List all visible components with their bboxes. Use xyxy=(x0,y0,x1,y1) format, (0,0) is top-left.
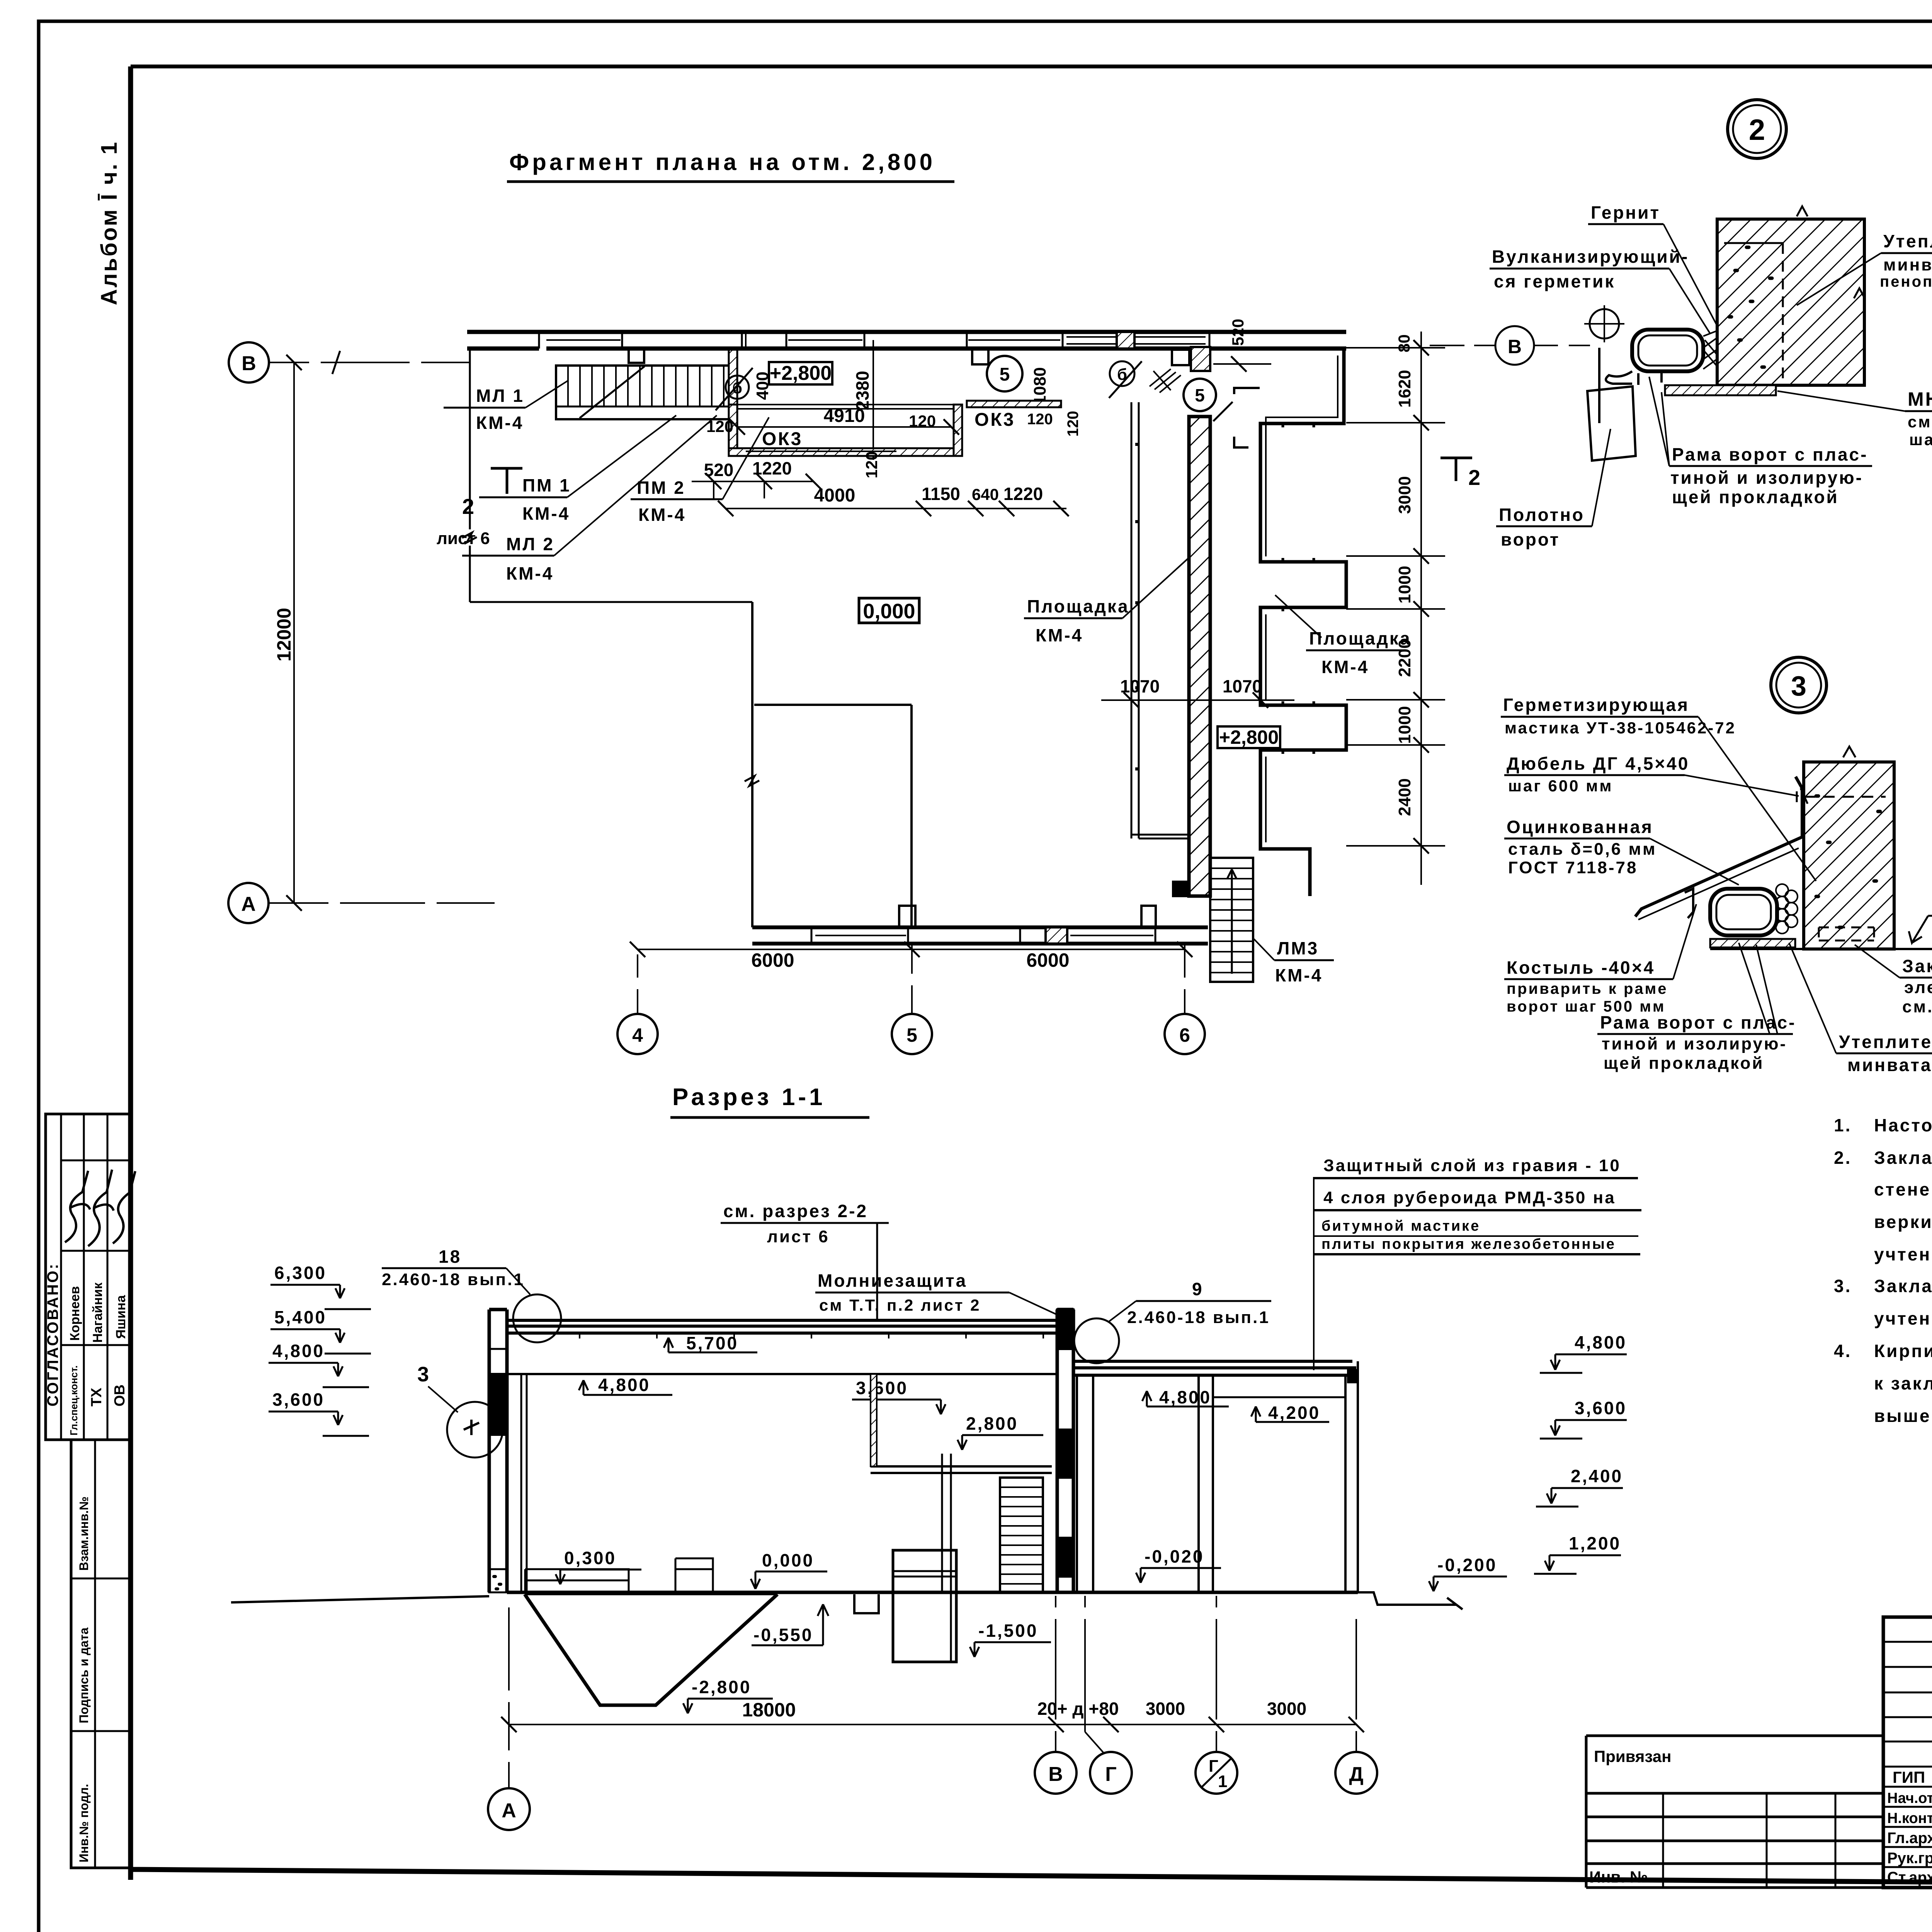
svg-text:0,000: 0,000 xyxy=(762,1550,814,1570)
break marks wall xyxy=(1797,206,1865,298)
B wall xyxy=(1057,1310,1073,1592)
svg-text:СОГЛАСОВАНО:: СОГЛАСОВАНО: xyxy=(44,1262,61,1406)
svg-text:18: 18 xyxy=(439,1247,461,1267)
interior room xyxy=(752,602,912,927)
svg-text:1150: 1150 xyxy=(922,484,960,504)
svg-text:2.: 2. xyxy=(1834,1148,1852,1168)
svg-text:Инв. №: Инв. № xyxy=(1589,1868,1648,1886)
svg-text:6: 6 xyxy=(1179,1024,1190,1046)
top strip line xyxy=(131,65,1932,68)
node b circle 2 xyxy=(1110,361,1134,386)
svg-text:-0,200: -0,200 xyxy=(1437,1555,1497,1575)
4,200 right mark xyxy=(1251,1406,1329,1422)
wall hatched xyxy=(1804,762,1894,949)
svg-text:элемент: элемент xyxy=(1904,978,1932,997)
svg-text:см. Т.Т. п. 2: см. Т.Т. п. 2 xyxy=(1908,413,1932,431)
svg-text:Фрагмент плана на отм. 2,800: Фрагмент плана на отм. 2,800 xyxy=(509,149,935,175)
internal stairs xyxy=(1000,1478,1043,1592)
svg-text:А: А xyxy=(241,893,256,915)
svg-text:приварить к раме: приварить к раме xyxy=(1507,980,1668,997)
svg-text:20+ д +80: 20+ д +80 xyxy=(1037,1699,1119,1719)
svg-text:4,200: 4,200 xyxy=(1268,1403,1320,1423)
right sawtooth outline xyxy=(1260,350,1346,896)
pivot circle xyxy=(1590,309,1619,338)
svg-text:Костыль -40×4: Костыль -40×4 xyxy=(1507,957,1655,978)
svg-text:Подпись и дата: Подпись и дата xyxy=(77,1628,91,1723)
top exterior wall xyxy=(467,332,1346,349)
svg-text:ПМ 2: ПМ 2 xyxy=(637,478,685,498)
level box 0,000 xyxy=(859,598,919,623)
left attach table xyxy=(1586,1736,1883,1888)
svg-text:Защитный слой из гравия - 10: Защитный слой из гравия - 10 xyxy=(1323,1156,1621,1175)
svg-text:2: 2 xyxy=(462,494,474,519)
window lines in wall xyxy=(546,337,1206,344)
dowel dashed xyxy=(1804,796,1886,798)
svg-text:12000: 12000 xyxy=(273,608,295,662)
svg-text:4000: 4000 xyxy=(814,485,855,506)
left thin wall xyxy=(1131,402,1189,838)
section mark 2 xyxy=(1440,458,1472,481)
svg-text:Дюбель ДГ 4,5×40: Дюбель ДГ 4,5×40 xyxy=(1507,753,1689,774)
svg-text:Яшина: Яшина xyxy=(114,1295,128,1339)
main dim line xyxy=(509,1724,1356,1725)
hatch mark xyxy=(1150,369,1181,393)
svg-text:Гл.арх.: Гл.арх. xyxy=(1887,1830,1932,1847)
svg-text:Разрез 1-1: Разрез 1-1 xyxy=(672,1084,826,1111)
svg-text:Закладные детали МН 108-3 для: Закладные детали МН 108-3 для крепления … xyxy=(1874,1148,1932,1168)
svg-text:щей прокладкой: щей прокладкой xyxy=(1672,487,1839,507)
roofing leader vertical xyxy=(1313,1178,1315,1370)
5,700 mark xyxy=(664,1338,757,1352)
svg-text:к закладным деталям колонн чер: к закладным деталям колонн через 1200 по… xyxy=(1874,1373,1932,1393)
svg-text:1220: 1220 xyxy=(752,458,792,478)
svg-text:18000: 18000 xyxy=(742,1699,796,1721)
svg-text:Настоящий лист смотреть совмес: Настоящий лист смотреть совместно с лист… xyxy=(1874,1115,1932,1135)
right columns xyxy=(1077,1361,1358,1592)
svg-text:Г: Г xyxy=(1209,1757,1218,1776)
svg-text:см. Т.Т. п.3: см. Т.Т. п.3 xyxy=(1902,997,1932,1016)
svg-text:ЛМ3: ЛМ3 xyxy=(1277,938,1319,958)
axis circle 5 bottom xyxy=(892,1014,932,1054)
level box +2,800 xyxy=(769,362,832,384)
left roof slab xyxy=(507,1320,1066,1333)
svg-text:2,400: 2,400 xyxy=(1571,1466,1623,1486)
svg-text:см Т.Т. п.2 лист 2: см Т.Т. п.2 лист 2 xyxy=(819,1296,981,1314)
svg-text:учтены в спецификации на листе: учтены в спецификации на листе КЖ 20 xyxy=(1874,1244,1932,1264)
embedded element dashed xyxy=(1819,927,1874,940)
approval table xyxy=(46,1114,131,1440)
svg-text:3,600: 3,600 xyxy=(1575,1398,1627,1418)
svg-text:120: 120 xyxy=(1065,411,1082,437)
svg-text:520: 520 xyxy=(704,460,734,480)
column stub xyxy=(972,349,988,364)
svg-text:Г: Г xyxy=(1105,1763,1116,1786)
svg-text:МН-108-3: МН-108-3 xyxy=(1908,388,1932,410)
signature 1 xyxy=(65,1171,90,1242)
svg-text:6000: 6000 xyxy=(751,949,794,971)
svg-text:-0,550: -0,550 xyxy=(753,1625,813,1645)
svg-text:Гернит: Гернит xyxy=(1591,202,1660,223)
svg-text:6,300: 6,300 xyxy=(274,1263,327,1283)
svg-text:1070: 1070 xyxy=(1223,676,1262,696)
signature 3 xyxy=(113,1171,135,1243)
svg-text:Ст.арх.: Ст.арх. xyxy=(1887,1869,1932,1886)
svg-text:Закладной: Закладной xyxy=(1902,956,1932,976)
svg-text:КМ-4: КМ-4 xyxy=(476,413,524,433)
svg-text:4,800: 4,800 xyxy=(1159,1387,1211,1407)
svg-text:Нач.отд.: Нач.отд. xyxy=(1887,1790,1932,1806)
axis circle A xyxy=(228,883,269,923)
node b circle xyxy=(726,376,749,399)
svg-text:КМ-4: КМ-4 xyxy=(638,505,686,525)
hinge hardware xyxy=(1606,371,1662,385)
svg-text:ся герметик: ся герметик xyxy=(1494,271,1615,291)
svg-text:МЛ 2: МЛ 2 xyxy=(506,534,554,554)
svg-text:Рук.гр.: Рук.гр. xyxy=(1887,1850,1932,1867)
svg-text:4,800: 4,800 xyxy=(598,1375,650,1395)
svg-text:1620: 1620 xyxy=(1395,370,1414,408)
svg-text:1070: 1070 xyxy=(1120,676,1160,696)
inner column xyxy=(521,1374,527,1592)
door jamb block bottom xyxy=(1173,882,1189,896)
dim row 4000 1150 640 1220 xyxy=(726,508,1066,509)
svg-text:5: 5 xyxy=(906,1024,917,1046)
axis circle 4 xyxy=(617,1014,658,1054)
wall window hatch xyxy=(1117,332,1134,349)
axis circle A sec xyxy=(488,1788,530,1830)
svg-text:сталь δ=0,6 мм: сталь δ=0,6 мм xyxy=(1508,840,1657,859)
svg-text:шаг 1800: шаг 1800 xyxy=(1909,430,1932,449)
column stub xyxy=(629,349,644,363)
right bay ceiling xyxy=(1213,1396,1345,1398)
detail circle 3 xyxy=(1771,657,1827,713)
wall ticks xyxy=(1135,444,1138,769)
svg-text:Кирпичные простенки у ворот ан: Кирпичные простенки у ворот анкерить арм… xyxy=(1874,1341,1932,1361)
svg-text:3000: 3000 xyxy=(1395,476,1414,514)
axis circle G1 sec xyxy=(1196,1752,1237,1794)
svg-text:КМ-4: КМ-4 xyxy=(506,563,554,583)
svg-text:Площадка: Площадка xyxy=(1027,596,1129,616)
axis circle 5 top xyxy=(987,356,1022,391)
svg-text:120: 120 xyxy=(1027,411,1053,428)
OK3 right jamb xyxy=(954,405,962,456)
svg-text:Привязан: Привязан xyxy=(1594,1747,1671,1765)
svg-text:4: 4 xyxy=(632,1024,643,1046)
svg-text:2.460-18 вып.1: 2.460-18 вып.1 xyxy=(1127,1308,1270,1327)
4,800 right mark xyxy=(1142,1391,1229,1406)
column stubs bottom xyxy=(899,906,915,927)
svg-text:1220: 1220 xyxy=(1003,484,1043,504)
svg-text:4 слоя рубероида РМД-350 на: 4 слоя рубероида РМД-350 на xyxy=(1323,1188,1616,1207)
svg-text:Нагайник: Нагайник xyxy=(90,1282,105,1343)
svg-text:Утеплитель-: Утеплитель- xyxy=(1839,1032,1932,1052)
dim row 520 1220 xyxy=(692,481,813,482)
axis circle B detail xyxy=(1495,326,1534,365)
svg-text:МЛ 1: МЛ 1 xyxy=(476,386,524,406)
brick wall hatched xyxy=(1717,219,1864,385)
OK3 sill band xyxy=(729,448,961,456)
svg-text:Гл.спец.конст.: Гл.спец.конст. xyxy=(68,1366,80,1435)
axis circle 6 bottom xyxy=(1165,1014,1205,1054)
detail circle 3 anchor xyxy=(447,1402,503,1458)
svg-text:3000: 3000 xyxy=(1267,1699,1306,1719)
svg-text:ОК3: ОК3 xyxy=(975,410,1015,430)
detail circle 2 xyxy=(1728,100,1786,158)
svg-text:-0,020: -0,020 xyxy=(1145,1546,1204,1566)
ground notch xyxy=(854,1594,879,1613)
axis circle B sec xyxy=(1035,1752,1077,1794)
bottom dim line xyxy=(638,949,1185,950)
signature 2 xyxy=(88,1170,114,1246)
platform 0,300 xyxy=(525,1569,629,1592)
door jamb blocks xyxy=(1172,350,1189,365)
svg-text:Закладные элементы для креплен: Закладные элементы для крепления ворот к… xyxy=(1874,1276,1932,1296)
wall break top xyxy=(1843,747,1855,757)
axis circle D sec xyxy=(1335,1752,1377,1794)
svg-text:Молниезащита: Молниезащита xyxy=(818,1270,967,1291)
detail circle on eave xyxy=(513,1294,561,1342)
svg-text:Вулканизирующий-: Вулканизирующий- xyxy=(1492,247,1689,267)
panel dashed edge xyxy=(1782,243,1784,385)
svg-text:6000: 6000 xyxy=(1026,949,1069,971)
svg-text:1080: 1080 xyxy=(1031,367,1049,405)
svg-text:минвата: минвата xyxy=(1847,1055,1932,1075)
concrete dots xyxy=(1816,796,1880,927)
svg-text:120: 120 xyxy=(909,412,936,430)
level box +2,800 right xyxy=(1218,726,1280,748)
svg-text:5,400: 5,400 xyxy=(274,1307,327,1327)
svg-text:3000: 3000 xyxy=(1146,1699,1185,1719)
svg-text:3: 3 xyxy=(417,1363,429,1386)
svg-text:0,300: 0,300 xyxy=(564,1548,616,1568)
concrete dots xyxy=(1729,247,1772,367)
svg-text:Д: Д xyxy=(1349,1763,1363,1786)
svg-text:Взам.инв.№: Взам.инв.№ xyxy=(77,1497,91,1571)
svg-text:В: В xyxy=(1048,1763,1063,1786)
svg-text:-2,800: -2,800 xyxy=(692,1677,751,1697)
kostyl hook xyxy=(1685,889,1693,918)
svg-text:3,600: 3,600 xyxy=(272,1389,325,1410)
svg-text:1,200: 1,200 xyxy=(1569,1533,1621,1553)
axis line B xyxy=(270,362,470,363)
underground tank xyxy=(893,1550,956,1662)
svg-text:-1,500: -1,500 xyxy=(978,1621,1038,1641)
bottom wall window hatch xyxy=(1046,927,1067,944)
svg-text:0,000: 0,000 xyxy=(863,600,915,623)
svg-text:стене устанавливаются в гнезда: стене устанавливаются в гнезда 300×150×1… xyxy=(1874,1179,1932,1199)
svg-text:тиной и изолирую-: тиной и изолирую- xyxy=(1602,1034,1787,1053)
svg-text:4,800: 4,800 xyxy=(272,1341,325,1361)
gasket coil xyxy=(1776,884,1798,934)
platform ticks xyxy=(1283,423,1314,754)
svg-text:4,800: 4,800 xyxy=(1575,1332,1627,1352)
svg-text:Инв.№ подл.: Инв.№ подл. xyxy=(77,1784,91,1862)
lightning rod xyxy=(876,1223,878,1320)
section mark 2 list 6 xyxy=(491,468,522,494)
svg-text:щей прокладкой: щей прокладкой xyxy=(1604,1054,1764,1073)
hopper pit xyxy=(525,1594,777,1705)
bottom plate xyxy=(1665,385,1776,395)
LM3 stairs xyxy=(1210,858,1253,982)
svg-text:В: В xyxy=(1508,336,1522,357)
svg-text:см. разрез 2-2: см. разрез 2-2 xyxy=(723,1201,868,1221)
staff table xyxy=(1883,1617,1932,1888)
svg-text:КМ-4: КМ-4 xyxy=(522,503,570,524)
svg-text:Рама ворот с плас-: Рама ворот с плас- xyxy=(1600,1012,1796,1032)
svg-text:учтены в разделе КЖ.: учтены в разделе КЖ. xyxy=(1874,1308,1932,1328)
door swing mark xyxy=(1234,388,1260,447)
svg-text:520: 520 xyxy=(1229,319,1247,346)
svg-text:ОК3: ОК3 xyxy=(762,429,803,449)
svg-text:лист 6: лист 6 xyxy=(437,529,490,548)
axis circle 5 right xyxy=(1184,379,1216,411)
svg-text:Полотно: Полотно xyxy=(1499,505,1585,525)
svg-text:3.: 3. xyxy=(1834,1276,1852,1296)
svg-text:9: 9 xyxy=(1192,1279,1204,1299)
svg-text:ОВ: ОВ xyxy=(112,1384,128,1406)
svg-text:В: В xyxy=(241,352,256,375)
svg-text:тиной и изолирую-: тиной и изолирую- xyxy=(1670,468,1863,488)
mezzanine floor xyxy=(871,1466,1052,1473)
svg-text:2: 2 xyxy=(1749,114,1765,146)
big hatched wall xyxy=(1189,417,1210,896)
svg-text:1000: 1000 xyxy=(1395,706,1414,744)
svg-text:ТХ: ТХ xyxy=(88,1388,105,1406)
ground line xyxy=(1710,948,1932,950)
svg-text:4910: 4910 xyxy=(824,406,865,426)
svg-text:2400: 2400 xyxy=(1395,778,1414,816)
right dim chain xyxy=(1420,332,1422,885)
tube frame xyxy=(1710,889,1777,935)
svg-text:Альбом Ī ч. 1: Альбом Ī ч. 1 xyxy=(97,141,122,305)
svg-text:ГИП: ГИП xyxy=(1893,1768,1925,1786)
equipment block xyxy=(675,1558,713,1592)
mezzanine wall hatched xyxy=(871,1374,877,1466)
base plate hatched xyxy=(1710,939,1795,947)
floor line xyxy=(507,1591,1358,1594)
OK3 left jamb xyxy=(729,405,737,456)
svg-text:5,700: 5,700 xyxy=(686,1333,738,1353)
4,800 mark xyxy=(579,1380,672,1395)
svg-text:верки рамы гнезда залить бетон: верки рамы гнезда залить бетоном класса … xyxy=(1874,1212,1932,1232)
svg-text:КМ-4: КМ-4 xyxy=(1321,657,1369,677)
svg-text:120: 120 xyxy=(862,451,881,478)
svg-text:+2,800: +2,800 xyxy=(1219,726,1279,748)
svg-text:4.: 4. xyxy=(1834,1341,1852,1361)
svg-text:КМ-4: КМ-4 xyxy=(1275,965,1323,985)
svg-text:3,600: 3,600 xyxy=(856,1378,908,1398)
svg-text:5: 5 xyxy=(1195,385,1205,405)
svg-text:1: 1 xyxy=(1218,1772,1227,1791)
svg-text:2,800: 2,800 xyxy=(966,1413,1018,1434)
svg-text:+2,800: +2,800 xyxy=(770,362,832,384)
svg-text:плиты покрытия железобетонные: плиты покрытия железобетонные xyxy=(1321,1236,1616,1252)
left wall column xyxy=(489,1310,507,1592)
svg-text:80: 80 xyxy=(1395,334,1413,352)
axis circle B xyxy=(229,342,269,383)
svg-text:1.: 1. xyxy=(1834,1115,1852,1135)
svg-text:2200: 2200 xyxy=(1395,639,1414,677)
svg-text:640: 640 xyxy=(972,485,999,503)
svg-text:лист 6: лист 6 xyxy=(767,1227,830,1246)
axis line A xyxy=(269,902,495,904)
ground line xyxy=(231,1596,489,1602)
flashing sheet xyxy=(1635,777,1802,917)
svg-text:Корнеев: Корнеев xyxy=(68,1286,82,1341)
svg-text:1000: 1000 xyxy=(1395,566,1414,604)
svg-text:пенополиуретан: пенополиуретан xyxy=(1880,273,1932,290)
svg-text:2.460-18 вып.1: 2.460-18 вып.1 xyxy=(382,1270,525,1289)
stairs ML1 xyxy=(556,366,731,419)
ceiling 4800 xyxy=(507,1373,1057,1375)
fragment boundary left xyxy=(470,350,752,602)
svg-text:КМ-4: КМ-4 xyxy=(1036,625,1083,645)
svg-text:5: 5 xyxy=(1000,364,1010,385)
svg-text:минвата,: минвата, xyxy=(1883,255,1932,274)
svg-text:шаг 600 мм: шаг 600 мм xyxy=(1508,777,1613,795)
svg-text:2: 2 xyxy=(1468,465,1480,490)
bottom wall xyxy=(752,927,1208,944)
gate leaf xyxy=(1587,348,1636,461)
axis circle G sec xyxy=(1090,1752,1132,1794)
svg-text:Н.контр.: Н.контр. xyxy=(1887,1810,1932,1827)
svg-text:А: А xyxy=(502,1799,516,1822)
svg-text:3: 3 xyxy=(1791,671,1806,702)
svg-text:Рама ворот с плас-: Рама ворот с плас- xyxy=(1672,444,1868,464)
gate frame tube xyxy=(1632,330,1703,371)
vertical dim 12000 xyxy=(293,362,295,903)
svg-text:ГОСТ 7118-78: ГОСТ 7118-78 xyxy=(1508,858,1638,877)
stair opening jamb xyxy=(729,350,737,406)
svg-text:Герметизирующая: Герметизирующая xyxy=(1503,695,1689,715)
gasket hatch xyxy=(1703,331,1717,369)
svg-text:выше и ниже анкеров уложить се: выше и ниже анкеров уложить сетки 60×60 … xyxy=(1874,1406,1932,1426)
right roof xyxy=(1073,1361,1356,1375)
OK3 head lines xyxy=(737,405,954,409)
svg-text:Утеплитель-: Утеплитель- xyxy=(1883,231,1932,251)
filing strip table xyxy=(71,1440,131,1868)
OK3 right band xyxy=(967,401,1061,407)
detail circle right eave xyxy=(1074,1318,1119,1363)
svg-text:Оцинкованная: Оцинкованная xyxy=(1507,817,1653,837)
svg-text:ПМ 1: ПМ 1 xyxy=(522,475,571,495)
svg-text:битумной мастике: битумной мастике xyxy=(1321,1218,1480,1234)
svg-text:ворот: ворот xyxy=(1501,529,1560,549)
